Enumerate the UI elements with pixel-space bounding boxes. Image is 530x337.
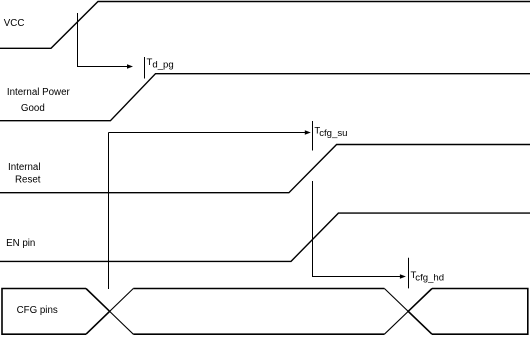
svg-text:Good: Good xyxy=(21,103,45,114)
svg-text:CFG pins: CFG pins xyxy=(17,305,58,316)
svg-text:Internal: Internal xyxy=(8,162,41,173)
svg-text:VCC: VCC xyxy=(4,18,25,29)
svg-text:Internal Power: Internal Power xyxy=(7,87,71,98)
svg-text:Tcfg_su: Tcfg_su xyxy=(314,125,347,139)
svg-text:Tcfg_hd: Tcfg_hd xyxy=(411,270,445,284)
svg-text:Reset: Reset xyxy=(15,175,41,186)
svg-text:Td_pg: Td_pg xyxy=(147,57,174,71)
svg-text:EN pin: EN pin xyxy=(6,238,35,249)
